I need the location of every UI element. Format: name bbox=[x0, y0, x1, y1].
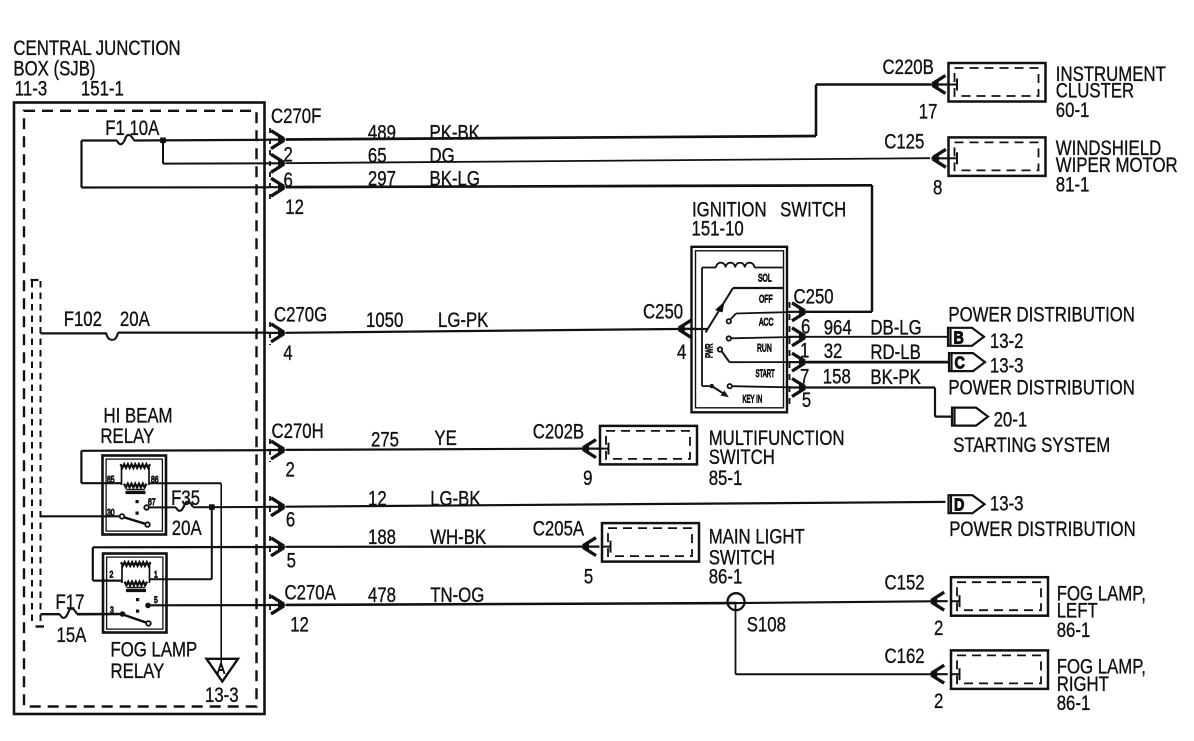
svg-text:188: 188 bbox=[368, 526, 396, 549]
svg-text:2: 2 bbox=[934, 690, 943, 713]
svg-text:4: 4 bbox=[677, 341, 687, 364]
svg-text:65: 65 bbox=[368, 145, 387, 168]
svg-text:6: 6 bbox=[286, 509, 295, 532]
svg-text:1: 1 bbox=[154, 569, 158, 579]
svg-text:C152: C152 bbox=[885, 572, 925, 595]
svg-text:A: A bbox=[217, 660, 226, 677]
svg-text:17: 17 bbox=[919, 101, 938, 124]
svg-text:20A: 20A bbox=[172, 517, 202, 540]
svg-text:C125: C125 bbox=[884, 131, 924, 154]
svg-text:12: 12 bbox=[290, 614, 309, 637]
svg-text:13-3: 13-3 bbox=[205, 684, 239, 707]
svg-text:ACC: ACC bbox=[759, 316, 774, 328]
svg-text:F17: F17 bbox=[56, 591, 85, 614]
svg-text:5: 5 bbox=[584, 566, 593, 589]
svg-text:STARTING SYSTEM: STARTING SYSTEM bbox=[953, 435, 1110, 458]
svg-text:85-1: 85-1 bbox=[709, 467, 743, 490]
svg-text:2: 2 bbox=[110, 569, 114, 579]
svg-text:6: 6 bbox=[801, 316, 810, 339]
svg-text:1050: 1050 bbox=[366, 309, 403, 332]
svg-text:F1 10A: F1 10A bbox=[105, 117, 159, 140]
svg-text:30: 30 bbox=[107, 507, 115, 517]
svg-text:85: 85 bbox=[107, 474, 115, 484]
svg-text:RD-LB: RD-LB bbox=[870, 341, 920, 364]
svg-text:20-1: 20-1 bbox=[994, 409, 1028, 432]
svg-text:6: 6 bbox=[284, 169, 293, 192]
svg-text:YE: YE bbox=[434, 427, 456, 450]
svg-text:12: 12 bbox=[285, 196, 304, 219]
svg-text:151-1: 151-1 bbox=[81, 78, 124, 101]
svg-text:9: 9 bbox=[583, 467, 592, 490]
svg-text:32: 32 bbox=[824, 340, 843, 363]
svg-text:5: 5 bbox=[287, 550, 296, 573]
svg-text:8: 8 bbox=[933, 177, 942, 200]
svg-text:86: 86 bbox=[151, 474, 159, 484]
svg-text:S108: S108 bbox=[747, 614, 786, 637]
svg-text:1: 1 bbox=[800, 340, 809, 363]
svg-text:C220B: C220B bbox=[883, 57, 934, 80]
svg-text:PWR: PWR bbox=[703, 344, 715, 358]
svg-text:C270A: C270A bbox=[285, 582, 337, 605]
svg-text:RELAY: RELAY bbox=[100, 425, 154, 448]
svg-text:POWER DISTRIBUTION: POWER DISTRIBUTION bbox=[949, 518, 1136, 541]
svg-text:F35: F35 bbox=[171, 487, 200, 510]
svg-text:D: D bbox=[954, 495, 965, 515]
svg-text:12: 12 bbox=[368, 488, 387, 511]
svg-text:DB-LG: DB-LG bbox=[870, 317, 921, 340]
svg-text:BK-LG: BK-LG bbox=[430, 168, 480, 191]
svg-text:LG-PK: LG-PK bbox=[438, 309, 489, 332]
svg-text:297: 297 bbox=[368, 168, 396, 191]
svg-text:F102: F102 bbox=[64, 308, 102, 331]
svg-text:86-1: 86-1 bbox=[1057, 619, 1091, 642]
svg-text:RUN: RUN bbox=[757, 342, 772, 354]
svg-text:13-3: 13-3 bbox=[990, 493, 1024, 516]
svg-text:11-3: 11-3 bbox=[15, 78, 47, 101]
svg-text:SWITCH: SWITCH bbox=[709, 446, 775, 469]
svg-text:151-10: 151-10 bbox=[692, 218, 744, 241]
svg-text:OFF: OFF bbox=[759, 293, 773, 305]
svg-text:3: 3 bbox=[110, 605, 114, 615]
svg-text:PK-BK: PK-BK bbox=[430, 122, 481, 145]
svg-text:C270G: C270G bbox=[274, 304, 327, 327]
svg-text:275: 275 bbox=[371, 429, 399, 452]
svg-text:BK-PK: BK-PK bbox=[870, 366, 921, 389]
svg-text:LG-BK: LG-BK bbox=[430, 488, 481, 511]
svg-text:7: 7 bbox=[800, 366, 809, 389]
svg-text:C205A: C205A bbox=[533, 518, 585, 541]
svg-text:POWER DISTRIBUTION: POWER DISTRIBUTION bbox=[948, 304, 1135, 327]
svg-text:158: 158 bbox=[823, 366, 851, 389]
svg-text:86-1: 86-1 bbox=[1057, 693, 1091, 716]
svg-text:81-1: 81-1 bbox=[1056, 174, 1090, 197]
svg-text:C202B: C202B bbox=[533, 421, 584, 444]
svg-text:15A: 15A bbox=[57, 624, 87, 647]
svg-text:MAIN LIGHT: MAIN LIGHT bbox=[709, 526, 805, 549]
svg-text:86-1: 86-1 bbox=[709, 566, 743, 589]
svg-text:TN-OG: TN-OG bbox=[430, 584, 484, 607]
svg-text:13-3: 13-3 bbox=[990, 355, 1024, 378]
svg-text:DG: DG bbox=[430, 145, 455, 168]
svg-text:20A: 20A bbox=[120, 308, 150, 331]
svg-text:C250: C250 bbox=[794, 286, 834, 309]
svg-text:C: C bbox=[955, 353, 966, 373]
svg-text:WH-BK: WH-BK bbox=[430, 526, 486, 549]
svg-text:2: 2 bbox=[284, 144, 293, 167]
svg-text:C270H: C270H bbox=[272, 420, 324, 443]
svg-text:RELAY: RELAY bbox=[111, 660, 165, 683]
svg-text:C250: C250 bbox=[643, 301, 683, 324]
svg-text:C270F: C270F bbox=[271, 105, 321, 128]
svg-text:2: 2 bbox=[934, 617, 943, 640]
svg-text:2: 2 bbox=[286, 459, 295, 482]
svg-text:SOL: SOL bbox=[758, 272, 772, 284]
svg-text:C162: C162 bbox=[885, 645, 925, 668]
svg-text:478: 478 bbox=[368, 584, 396, 607]
svg-text:964: 964 bbox=[824, 317, 852, 340]
svg-text:START: START bbox=[756, 367, 776, 379]
svg-text:13-2: 13-2 bbox=[990, 331, 1024, 354]
svg-text:60-1: 60-1 bbox=[1056, 100, 1090, 123]
svg-text:4: 4 bbox=[283, 342, 293, 365]
svg-text:5: 5 bbox=[802, 389, 811, 412]
svg-text:KEY IN: KEY IN bbox=[743, 393, 763, 405]
svg-text:POWER DISTRIBUTION: POWER DISTRIBUTION bbox=[948, 377, 1135, 400]
svg-text:5: 5 bbox=[154, 595, 158, 605]
svg-text:FOG LAMP: FOG LAMP bbox=[111, 639, 198, 662]
svg-text:B: B bbox=[954, 328, 965, 348]
svg-text:489: 489 bbox=[368, 122, 396, 145]
